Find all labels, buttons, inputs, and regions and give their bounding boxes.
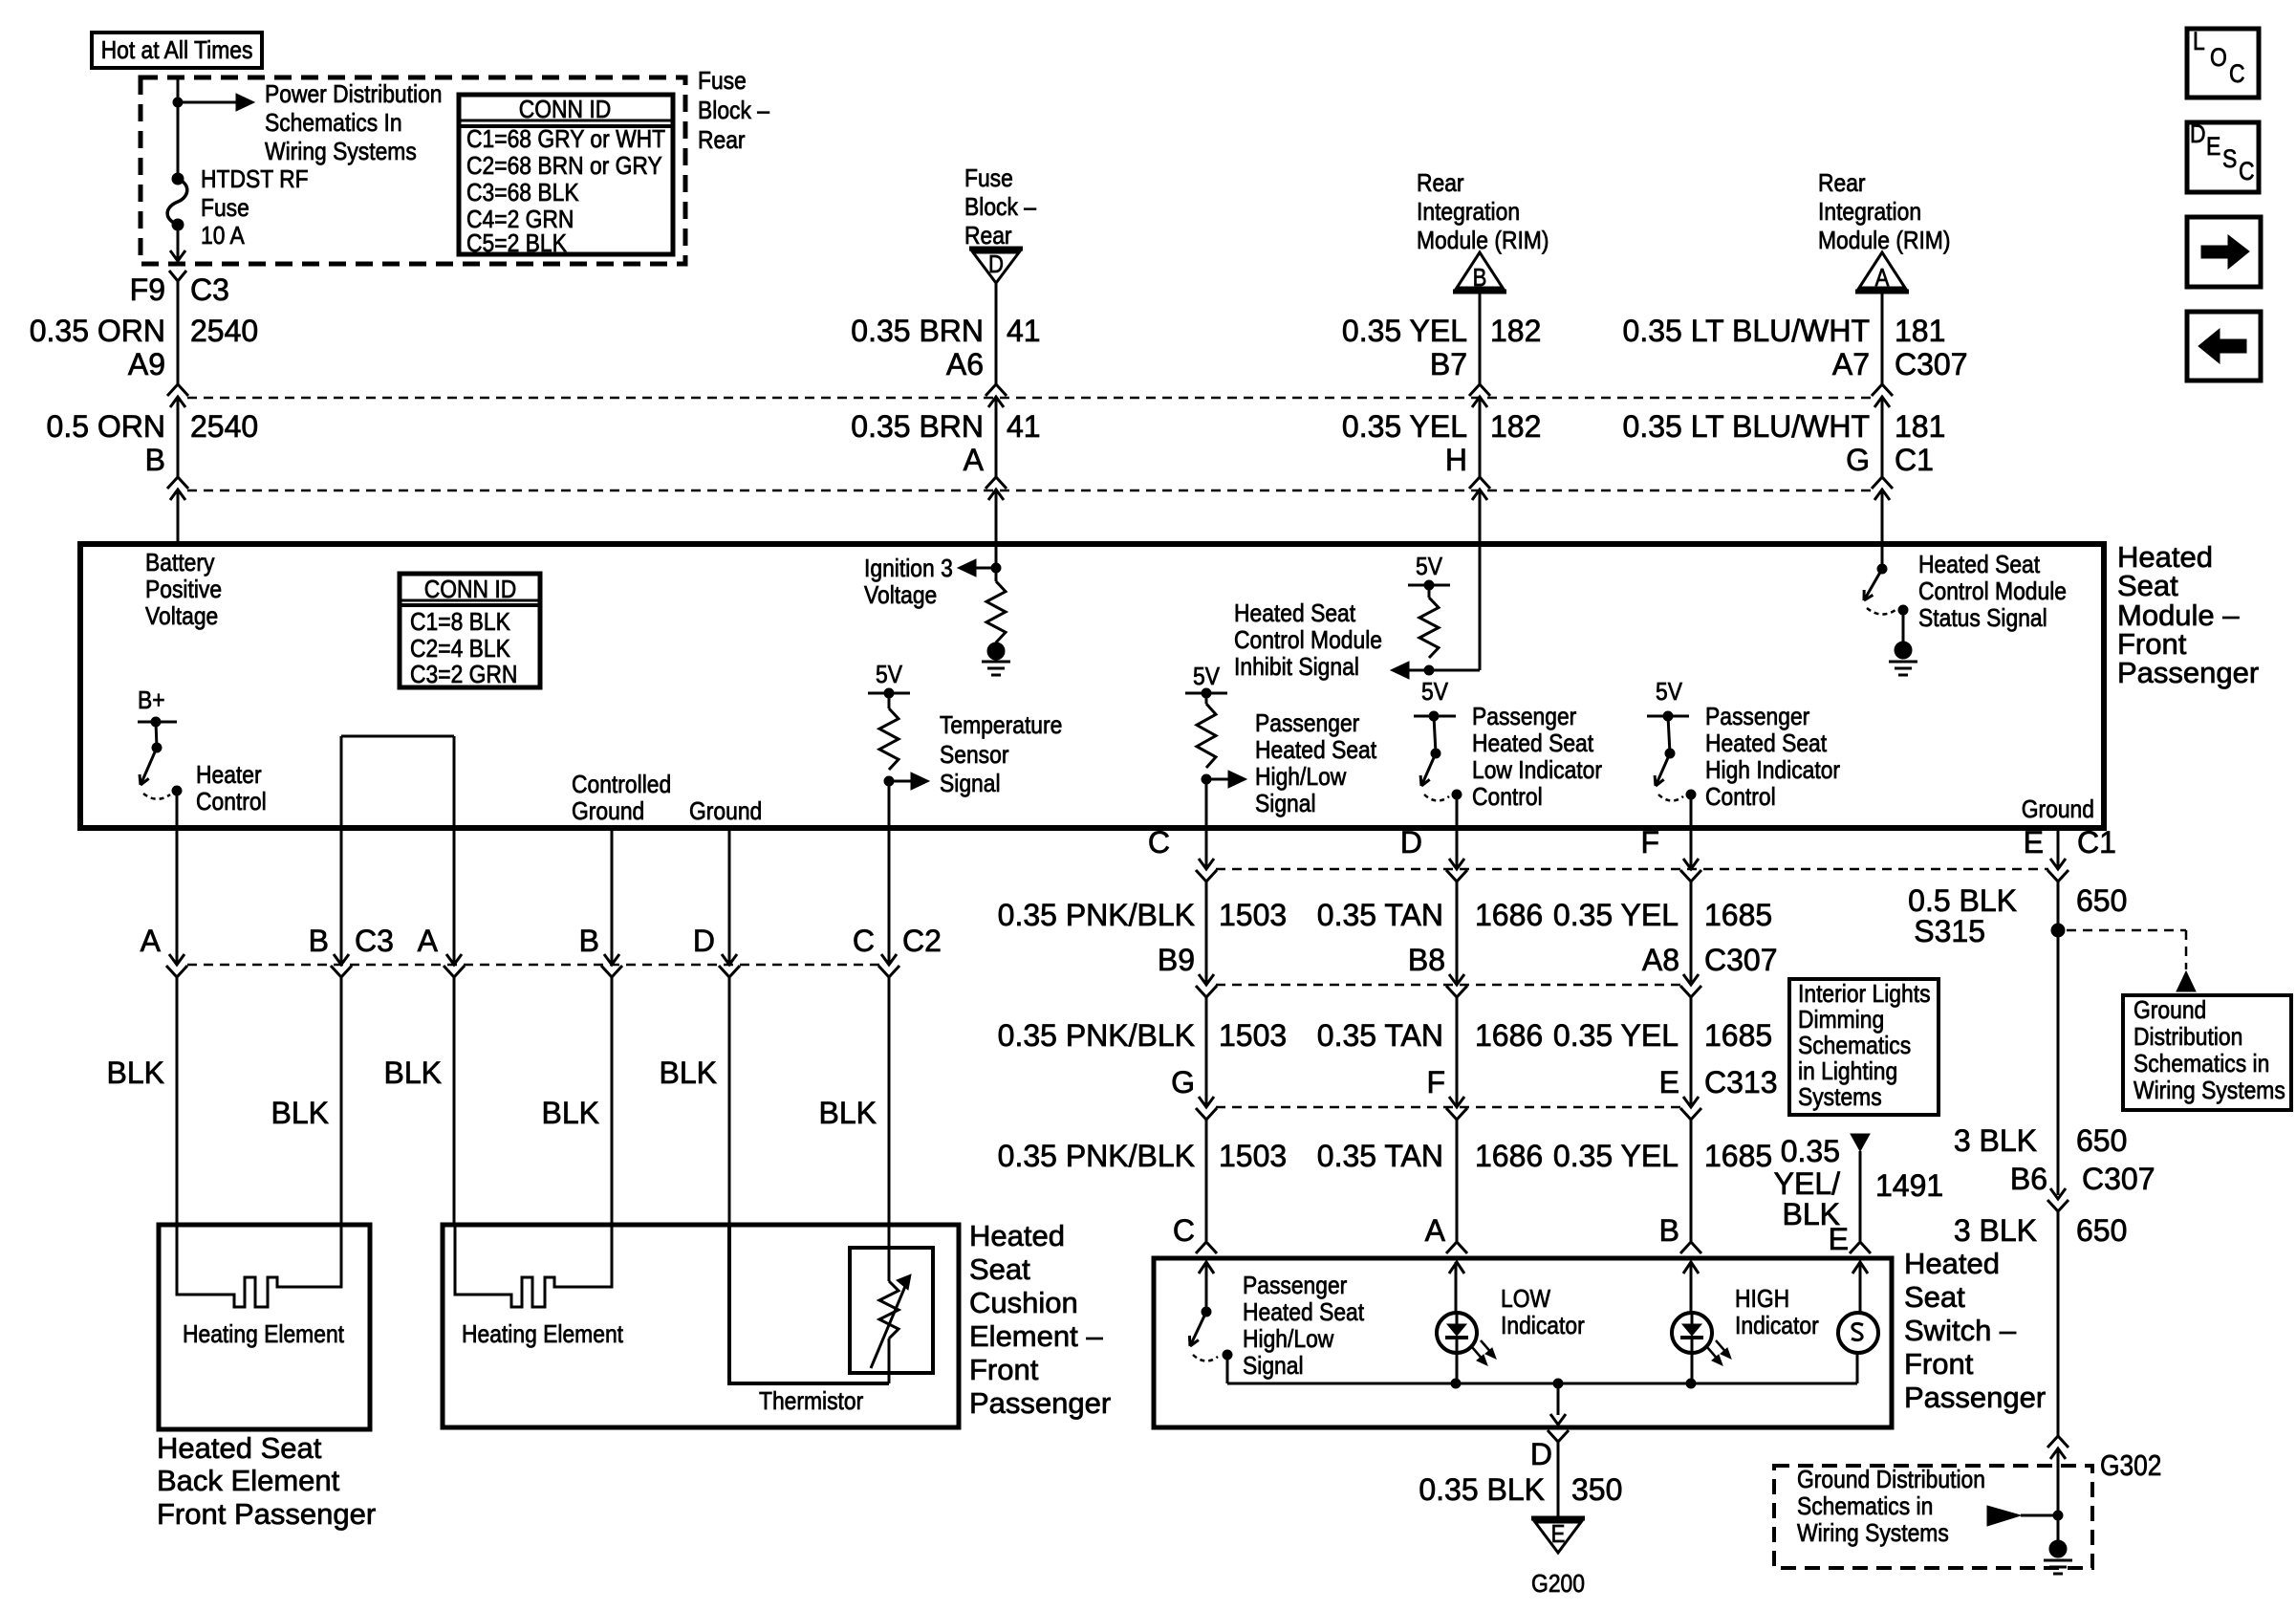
svg-text:C: C <box>2229 59 2245 88</box>
wire 0.35 BRN 41 upper <box>995 283 998 384</box>
svg-text:650: 650 <box>2076 883 2127 918</box>
inline connector <box>1683 1097 1699 1107</box>
svg-text:D: D <box>988 250 1004 278</box>
svg-text:C: C <box>2239 157 2255 185</box>
inline connector <box>1683 859 1699 869</box>
wire B to switch <box>1690 1120 1693 1241</box>
svg-text:Distribution: Distribution <box>2134 1024 2242 1052</box>
svg-text:D: D <box>2190 120 2206 148</box>
svg-text:5V: 5V <box>1193 664 1221 691</box>
svg-text:181: 181 <box>1895 314 1945 348</box>
svg-text:Ground: Ground <box>689 798 762 826</box>
svg-text:Ground: Ground <box>2134 997 2206 1025</box>
wire into G302 <box>2057 1450 2060 1541</box>
svg-text:Voltage: Voltage <box>145 603 218 631</box>
wire pin C C2 thermistor <box>888 828 891 964</box>
inline connector <box>446 954 462 965</box>
svg-text:C3=68 BLK: C3=68 BLK <box>466 180 579 207</box>
svg-text:0.35 TAN: 0.35 TAN <box>1317 1018 1443 1053</box>
ground path D wire inside cushion element <box>729 1225 889 1383</box>
dashed link to ground distribution schematics <box>2067 929 2186 932</box>
svg-text:0.35 LT BLU/WHT: 0.35 LT BLU/WHT <box>1623 314 1870 348</box>
node high indicator control <box>1686 790 1696 799</box>
arrow from schematics to ground node <box>1987 1506 2021 1526</box>
svg-text:Heater: Heater <box>196 762 262 790</box>
svg-text:Dimming: Dimming <box>1798 1007 1884 1034</box>
svg-text:1685: 1685 <box>1704 1139 1772 1173</box>
svg-text:B: B <box>1659 1213 1679 1248</box>
svg-text:181: 181 <box>1895 409 1945 444</box>
svg-text:0.35 PNK/BLK: 0.35 PNK/BLK <box>998 898 1195 932</box>
node low indicator control <box>1452 790 1462 799</box>
svg-text:41: 41 <box>1007 409 1041 444</box>
svg-text:Back Element: Back Element <box>157 1464 340 1497</box>
svg-text:1686: 1686 <box>1475 1018 1543 1053</box>
svg-text:1685: 1685 <box>1704 898 1772 932</box>
high/low signal switch (in switch assembly) <box>1205 1262 1208 1312</box>
svg-text:Front: Front <box>969 1353 1039 1386</box>
wire pin D <box>1456 828 1459 868</box>
svg-text:C307: C307 <box>1704 943 1778 977</box>
svg-text:Schematics in: Schematics in <box>2134 1051 2269 1078</box>
svg-text:F9: F9 <box>130 272 165 307</box>
inline connector <box>722 954 737 965</box>
svg-text:Integration: Integration <box>1417 199 1520 227</box>
inline connector G <box>1872 477 1893 489</box>
svg-text:Interior Lights: Interior Lights <box>1798 981 1931 1009</box>
left arrow nav box <box>2187 312 2261 381</box>
svg-text:G302: G302 <box>2100 1449 2161 1482</box>
node bus out <box>1553 1379 1563 1388</box>
node high/low output <box>1223 1350 1232 1360</box>
svg-text:Indicator: Indicator <box>1501 1313 1585 1340</box>
svg-text:0.5 ORN: 0.5 ORN <box>47 409 165 444</box>
wire fuse output with down arrow at dashed box edge <box>177 225 180 259</box>
svg-text:0.35 YEL: 0.35 YEL <box>1553 1139 1679 1173</box>
svg-text:C3: C3 <box>355 924 394 958</box>
svg-text:Passenger: Passenger <box>1472 704 1576 731</box>
svg-text:Ground: Ground <box>572 798 644 826</box>
inline connector A6 <box>986 384 1007 396</box>
svg-text:C: C <box>1148 825 1170 860</box>
hot at all times box <box>92 33 262 68</box>
svg-text:BLK: BLK <box>819 1096 877 1130</box>
status signal switch <box>1881 544 1884 569</box>
svg-text:YEL/: YEL/ <box>1774 1166 1840 1201</box>
svg-text:C5=2 BLK: C5=2 BLK <box>466 230 567 258</box>
node heater control contact <box>172 786 182 795</box>
svg-text:10 A: 10 A <box>201 223 245 250</box>
svg-text:Integration: Integration <box>1818 199 1921 227</box>
wire D row2 <box>1456 882 1459 984</box>
ground node <box>987 642 1005 660</box>
wire heater control to pin A <box>176 791 179 828</box>
svg-text:Power Distribution: Power Distribution <box>265 81 442 109</box>
svg-text:C1: C1 <box>2077 825 2116 860</box>
thermistor box <box>850 1248 933 1373</box>
wire to pin C2-C <box>888 781 891 828</box>
svg-text:Heated Seat: Heated Seat <box>1705 730 1827 758</box>
fuse HTDST RF 10A <box>172 173 184 185</box>
svg-text:Fuse: Fuse <box>964 165 1013 193</box>
arrow to power distribution schematics <box>178 101 239 104</box>
inline connector A9 <box>167 384 188 396</box>
svg-text:Fuse: Fuse <box>201 195 249 223</box>
svg-text:182: 182 <box>1490 409 1541 444</box>
svg-text:Wiring Systems: Wiring Systems <box>265 139 417 166</box>
switch box entry connector <box>1446 1242 1467 1253</box>
svg-text:Control Module: Control Module <box>1234 627 1382 655</box>
svg-text:1503: 1503 <box>1219 898 1287 932</box>
svg-text:C1=68 GRY or WHT: C1=68 GRY or WHT <box>466 126 665 154</box>
svg-text:3 BLK: 3 BLK <box>1954 1123 2037 1158</box>
svg-text:C: C <box>1173 1213 1195 1248</box>
inline connector <box>1199 1097 1214 1107</box>
dashed harness line right group row 2 <box>1216 984 1681 987</box>
svg-text:C307: C307 <box>1895 347 1968 381</box>
svg-text:BLK: BLK <box>271 1096 329 1130</box>
svg-text:H: H <box>1445 443 1467 477</box>
svg-text:C2=68 BRN or GRY: C2=68 BRN or GRY <box>466 153 662 181</box>
DESC nav box <box>2187 122 2259 192</box>
arrow high/low signal <box>1206 778 1231 781</box>
svg-text:LOW: LOW <box>1501 1286 1551 1314</box>
wire pin A (cushion) <box>453 828 456 964</box>
dashed harness line row 1 <box>187 397 1872 400</box>
wire pin D ground <box>728 828 731 964</box>
wire BLK A to cushion element <box>453 977 456 1225</box>
svg-text:41: 41 <box>1007 314 1041 348</box>
svg-text:C: C <box>853 924 875 958</box>
fuse block rear dashed outline <box>141 77 685 264</box>
svg-text:Heating Element: Heating Element <box>183 1321 344 1349</box>
svg-text:Control: Control <box>1705 784 1776 812</box>
svg-text:Fuse: Fuse <box>698 68 747 96</box>
wire 0.35 LT BLU/WHT 181 lower <box>1881 399 1884 477</box>
page connector E G200 <box>1531 1516 1585 1521</box>
svg-text:C3=2 GRN: C3=2 GRN <box>410 662 517 689</box>
svg-text:B: B <box>145 443 165 477</box>
inline connector at G302 <box>2047 1436 2069 1448</box>
svg-text:Signal: Signal <box>940 771 1001 798</box>
wire pin B controlled ground <box>611 828 614 964</box>
ground distribution schematics box (right) <box>2123 995 2291 1110</box>
svg-text:1686: 1686 <box>1475 1139 1543 1173</box>
svg-text:D: D <box>1530 1437 1552 1471</box>
wire to pin C <box>1205 779 1208 828</box>
inline connector <box>1683 974 1699 985</box>
svg-text:0.35 TAN: 0.35 TAN <box>1317 1139 1443 1173</box>
svg-text:650: 650 <box>2076 1213 2127 1248</box>
svg-text:Seat: Seat <box>1904 1280 1965 1314</box>
svg-text:A8: A8 <box>1642 943 1679 977</box>
svg-text:S: S <box>2222 144 2237 173</box>
right arrow nav box <box>2187 217 2261 287</box>
svg-text:Wiring Systems: Wiring Systems <box>1797 1520 1949 1548</box>
inline connector <box>1199 859 1214 869</box>
svg-text:0.35 YEL: 0.35 YEL <box>1553 1018 1679 1053</box>
interior lights dimming schematics box <box>1789 979 1939 1115</box>
svg-text:Rear: Rear <box>1417 170 1464 198</box>
svg-text:High/Low: High/Low <box>1255 764 1347 792</box>
svg-text:Sensor: Sensor <box>940 742 1008 770</box>
wire BLK C to thermistor <box>888 977 891 1225</box>
module internal connector notch C3 <box>341 735 454 738</box>
svg-text:Inhibit Signal: Inhibit Signal <box>1234 654 1359 682</box>
svg-text:Battery: Battery <box>145 550 215 577</box>
inline connector <box>2050 859 2066 869</box>
wire 0.35 YEL 182 lower <box>1479 399 1482 477</box>
inline connector <box>1199 974 1214 985</box>
svg-text:Seat: Seat <box>969 1252 1030 1286</box>
svg-text:in Lighting: in Lighting <box>1798 1058 1897 1086</box>
svg-text:Heated Seat: Heated Seat <box>157 1431 322 1465</box>
svg-text:B+: B+ <box>138 687 165 715</box>
svg-text:3 BLK: 3 BLK <box>1954 1213 2037 1248</box>
CONN ID table (module) <box>400 574 540 687</box>
svg-text:BLK: BLK <box>107 1056 164 1090</box>
svg-text:O: O <box>2210 43 2227 72</box>
heating element (back) <box>177 1225 341 1307</box>
svg-text:Block –: Block – <box>698 98 769 125</box>
svg-text:High/Low: High/Low <box>1243 1326 1334 1354</box>
svg-text:Control: Control <box>196 789 267 816</box>
svg-text:5V: 5V <box>1421 679 1449 707</box>
switch internal bus <box>1227 1382 1857 1385</box>
wire into module status signal <box>1881 491 1884 544</box>
wire BLK A to back element <box>176 977 179 1225</box>
svg-text:1491: 1491 <box>1875 1168 1943 1203</box>
svg-text:Control: Control <box>1472 784 1543 812</box>
svg-text:B: B <box>579 924 599 958</box>
wire D row3 <box>1456 997 1459 1106</box>
switch output D with arrow <box>1557 1383 1560 1415</box>
node on feed wire <box>173 98 183 107</box>
LOW indicator LED <box>1455 1262 1458 1314</box>
svg-text:Heated Seat: Heated Seat <box>1255 737 1376 765</box>
svg-text:B8: B8 <box>1408 943 1445 977</box>
wire 0.35 BRN 41 lower <box>995 399 998 477</box>
dashed harness line right group row 1 <box>1216 868 2048 871</box>
wire 3 BLK 650 lower <box>2057 1211 2060 1438</box>
svg-text:A7: A7 <box>1832 347 1870 381</box>
svg-text:B9: B9 <box>1158 943 1195 977</box>
G302 dashed box <box>1774 1466 2092 1568</box>
svg-text:BLK: BLK <box>660 1056 717 1090</box>
svg-text:E: E <box>1659 1065 1679 1099</box>
svg-text:G: G <box>1171 1065 1195 1099</box>
node high/low signal <box>1202 774 1211 784</box>
svg-text:5V: 5V <box>1416 554 1443 581</box>
svg-text:Low Indicator: Low Indicator <box>1472 757 1602 785</box>
svg-text:0.35: 0.35 <box>1781 1134 1840 1168</box>
svg-text:C1: C1 <box>1895 443 1934 477</box>
ground node G302 <box>2049 1540 2067 1557</box>
svg-text:5V: 5V <box>876 662 903 689</box>
wire F row2 <box>1690 882 1693 984</box>
svg-text:B7: B7 <box>1430 347 1467 381</box>
wire 0.5 BLK 650 <box>2057 882 2060 1195</box>
svg-text:A: A <box>964 443 985 477</box>
svg-text:Hot at All Times: Hot at All Times <box>101 37 253 65</box>
inline connector <box>604 954 619 965</box>
svg-text:Seat: Seat <box>2117 569 2178 602</box>
node bus high <box>1686 1379 1696 1388</box>
inline connector <box>1449 974 1464 985</box>
svg-text:Switch –: Switch – <box>1904 1314 2017 1347</box>
svg-text:C313: C313 <box>1704 1065 1778 1099</box>
svg-text:650: 650 <box>2076 1123 2127 1158</box>
svg-text:Thermistor: Thermistor <box>759 1388 863 1416</box>
svg-text:Passenger: Passenger <box>1904 1381 2046 1414</box>
svg-text:Front: Front <box>1904 1347 1974 1381</box>
wire BLK B to cushion element <box>611 977 614 1225</box>
svg-text:C2: C2 <box>902 924 942 958</box>
svg-text:1685: 1685 <box>1704 1018 1772 1053</box>
inline connector <box>334 954 349 965</box>
svg-text:C307: C307 <box>2082 1162 2155 1196</box>
svg-text:Block –: Block – <box>964 194 1036 222</box>
switch box entry connector <box>1850 1242 1871 1253</box>
illumination lamp symbol <box>1859 1262 1862 1315</box>
wire from RIM B <box>1479 544 1482 670</box>
svg-text:0.35 PNK/BLK: 0.35 PNK/BLK <box>998 1018 1195 1053</box>
node status signal <box>1898 605 1908 615</box>
ground node status <box>1895 642 1912 659</box>
wire pin E ground <box>2057 828 2060 868</box>
HIGH indicator LED <box>1690 1262 1693 1314</box>
inline connector <box>1449 859 1464 869</box>
svg-text:0.35 TAN: 0.35 TAN <box>1317 898 1443 932</box>
svg-text:BLK: BLK <box>384 1056 442 1090</box>
wire 0.35 BLK 350 <box>1557 1442 1560 1518</box>
CONN ID table (fuse block) <box>459 95 673 254</box>
wire C row2 <box>1205 882 1208 984</box>
svg-text:Signal: Signal <box>1243 1353 1304 1381</box>
fuse block output connector fork <box>169 271 186 281</box>
svg-text:0.35 YEL: 0.35 YEL <box>1553 898 1679 932</box>
svg-text:0.35 PNK/BLK: 0.35 PNK/BLK <box>998 1139 1195 1173</box>
svg-text:Temperature: Temperature <box>940 712 1062 740</box>
svg-text:Voltage: Voltage <box>864 582 937 610</box>
svg-text:Systems: Systems <box>1798 1084 1882 1112</box>
svg-text:C2=4 BLK: C2=4 BLK <box>410 636 510 664</box>
svg-text:Heated Seat: Heated Seat <box>1472 730 1593 758</box>
svg-text:E: E <box>1551 1520 1566 1548</box>
dashed harness line left group <box>187 964 879 967</box>
dashed harness line right group row 3 <box>1216 1106 1681 1109</box>
svg-text:B: B <box>309 924 329 958</box>
heated seat module box <box>80 544 2104 828</box>
page connector D fuse block rear <box>969 247 1023 251</box>
svg-text:0.5 BLK: 0.5 BLK <box>1908 883 2017 918</box>
svg-text:Heated: Heated <box>1904 1247 2000 1280</box>
page connector B rear integration module <box>1457 252 1503 288</box>
svg-text:Element –: Element – <box>969 1319 1103 1353</box>
wire 0.5 ORN 2540 <box>177 399 180 477</box>
svg-text:E: E <box>2024 825 2044 860</box>
svg-text:0.35 BRN: 0.35 BRN <box>851 314 984 348</box>
svg-text:Module (RIM): Module (RIM) <box>1818 228 1950 255</box>
switch box entry connector <box>1196 1242 1217 1253</box>
svg-text:HTDST RF: HTDST RF <box>201 166 309 194</box>
ground G302 <box>2044 1559 2072 1562</box>
svg-text:Indicator: Indicator <box>1735 1313 1819 1340</box>
svg-text:Ground: Ground <box>2022 796 2094 824</box>
wire pin B C3 <box>340 828 343 964</box>
svg-text:Signal: Signal <box>1255 791 1316 818</box>
svg-text:Passenger: Passenger <box>1243 1273 1347 1300</box>
wire C to switch <box>1205 1120 1208 1241</box>
svg-text:L: L <box>2193 27 2205 55</box>
svg-text:Rear: Rear <box>964 223 1012 250</box>
svg-text:S315: S315 <box>1914 914 1985 948</box>
ignition 3 voltage input <box>995 544 998 581</box>
svg-text:0.35 YEL: 0.35 YEL <box>1342 314 1467 348</box>
svg-text:A: A <box>1425 1213 1446 1248</box>
svg-text:1686: 1686 <box>1475 898 1543 932</box>
svg-text:Heated: Heated <box>969 1219 1065 1252</box>
svg-text:CONN ID: CONN ID <box>519 97 612 124</box>
inline connector <box>881 954 897 965</box>
svg-text:Heated Seat: Heated Seat <box>1918 552 2040 579</box>
svg-text:0.35 BRN: 0.35 BRN <box>851 409 984 444</box>
svg-text:BLK: BLK <box>542 1096 599 1130</box>
wire to pin D <box>1456 795 1459 828</box>
wire BLK B to back element <box>340 977 343 1225</box>
svg-text:D: D <box>1400 825 1422 860</box>
inline connector <box>169 954 184 965</box>
svg-text:Passenger: Passenger <box>969 1386 1111 1420</box>
svg-text:Status Signal: Status Signal <box>1918 605 2047 633</box>
wire from hot feed down to fuse <box>177 77 180 179</box>
svg-text:Rear: Rear <box>1818 170 1866 198</box>
svg-text:B: B <box>1473 264 1487 292</box>
wire into module ignition 3 <box>995 491 998 544</box>
heated seat cushion element box <box>443 1225 959 1427</box>
svg-text:C3: C3 <box>190 272 229 307</box>
svg-text:Ground Distribution: Ground Distribution <box>1797 1467 1985 1494</box>
node inhibit signal <box>1424 665 1434 675</box>
svg-text:High Indicator: High Indicator <box>1705 757 1840 785</box>
svg-text:182: 182 <box>1490 314 1541 348</box>
wire 0.35 YEL 182 upper <box>1479 292 1482 384</box>
svg-text:Heated Seat: Heated Seat <box>1234 600 1355 628</box>
wire into module battery feed <box>177 491 180 544</box>
svg-text:A: A <box>418 924 439 958</box>
svg-text:Schematics In: Schematics In <box>265 110 402 138</box>
svg-text:G: G <box>1846 443 1870 477</box>
arrow temperature sensor signal <box>889 780 914 783</box>
heating element (cushion) <box>455 1225 612 1307</box>
svg-text:Heating Element: Heating Element <box>462 1321 623 1349</box>
inline connector <box>1449 1097 1464 1107</box>
svg-text:350: 350 <box>1571 1472 1622 1507</box>
svg-text:D: D <box>693 924 715 958</box>
svg-text:Module (RIM): Module (RIM) <box>1417 228 1549 255</box>
svg-text:2540: 2540 <box>190 409 258 444</box>
svg-text:1503: 1503 <box>1219 1018 1287 1053</box>
svg-text:0.35 LT BLU/WHT: 0.35 LT BLU/WHT <box>1623 409 1870 444</box>
wire 0.35 YEL/BLK 1491 from interior lights <box>1851 1134 1870 1151</box>
svg-text:0.35 YEL: 0.35 YEL <box>1342 409 1467 444</box>
svg-text:A9: A9 <box>128 347 165 381</box>
node G302 <box>2053 1511 2063 1520</box>
LOC nav box <box>2187 29 2259 98</box>
inline connector A7 <box>1872 384 1893 396</box>
svg-text:1503: 1503 <box>1219 1139 1287 1173</box>
svg-text:HIGH: HIGH <box>1735 1286 1789 1314</box>
